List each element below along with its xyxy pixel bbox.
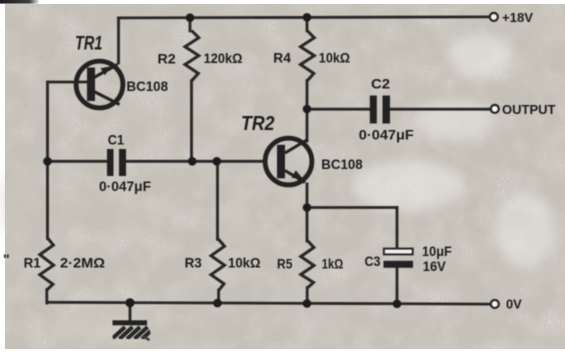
wire: left column below R1	[45, 290, 48, 304]
ground symbol	[129, 303, 132, 321]
svg-text:1kΩ: 1kΩ	[322, 256, 343, 272]
wire: R2 column	[189, 18, 192, 31]
wire: top +18V rail	[119, 17, 490, 18]
junction R2 top on +18V rail	[186, 13, 195, 22]
svg-text:C3: C3	[365, 253, 381, 269]
capacitor C2	[370, 96, 390, 124]
wire: C2 right to output	[391, 108, 491, 111]
wire: bottom 0V rail	[48, 302, 491, 304]
svg-text:R2: R2	[158, 51, 176, 67]
junction TR1 base / C1 / R1	[43, 157, 52, 166]
wire: R4/TR2 collector column	[306, 17, 309, 31]
svg-text:BC108: BC108	[127, 78, 169, 94]
wire: R5 bottom lead	[306, 288, 309, 304]
terminal OUTPUT	[491, 105, 499, 113]
wire: R3 column top	[216, 161, 219, 239]
svg-text:R1: R1	[24, 255, 41, 271]
wire: mid base line right of C1 to TR2 base	[127, 160, 267, 163]
resistor R5	[301, 241, 314, 289]
junction C3 bottom on 0V rail	[393, 300, 402, 309]
resistor R1	[40, 238, 54, 290]
wire: TR2 emitter column	[306, 184, 309, 241]
svg-text:0·047μF: 0·047μF	[359, 127, 414, 143]
transistor TR2	[265, 138, 312, 185]
node TR2 collector / C2	[303, 105, 312, 114]
svg-text:10μF: 10μF	[422, 243, 452, 259]
svg-text:10kΩ: 10kΩ	[319, 50, 350, 66]
svg-text:120kΩ: 120kΩ	[204, 50, 243, 66]
wire: C3 bottom lead	[396, 268, 399, 305]
wire: C3 top lead	[396, 208, 399, 249]
junction R2 bottom on base wire	[188, 157, 197, 166]
svg-text:2·2MΩ: 2·2MΩ	[60, 255, 105, 271]
svg-text:": "	[3, 251, 10, 267]
svg-text:C1: C1	[108, 132, 124, 148]
svg-text:TR2: TR2	[241, 113, 275, 135]
wire: R3 bottom lead	[217, 290, 220, 303]
svg-text:16V: 16V	[423, 258, 447, 274]
resistor R3	[211, 239, 225, 291]
resistor R4	[301, 31, 315, 82]
wire: left column (TR1 base down to bottom rail)	[46, 82, 49, 239]
terminal 0V	[491, 300, 499, 308]
junction ground on 0V rail	[125, 298, 134, 307]
wire: C2 left	[307, 108, 370, 111]
junction R4 top on +18V rail	[303, 13, 312, 22]
svg-text:0·047μF: 0·047μF	[99, 178, 151, 194]
wire: TR1 emitter to rail	[117, 18, 120, 63]
capacitor C1	[107, 149, 126, 176]
svg-text:C2: C2	[371, 76, 390, 92]
transistor TR1	[48, 61, 123, 108]
terminal +18V	[490, 13, 498, 21]
svg-text:OUTPUT: OUTPUT	[502, 102, 556, 117]
node TR2 emitter / R5 / C3	[303, 203, 312, 212]
junction R5 bottom on 0V rail	[303, 299, 312, 308]
svg-text:R4: R4	[273, 50, 291, 66]
junction R3 top on base wire	[213, 157, 222, 166]
svg-text:BC108: BC108	[321, 156, 363, 172]
svg-text:+18V: +18V	[502, 10, 533, 25]
svg-text:R3: R3	[185, 255, 202, 271]
resistor R2	[185, 31, 199, 82]
wire: mid base line left of C1	[48, 160, 108, 163]
svg-text:TR1: TR1	[75, 33, 103, 54]
svg-text:10kΩ: 10kΩ	[228, 255, 261, 271]
wire: emitter node to C3	[307, 206, 397, 209]
capacitor C3 (electrolytic)	[384, 249, 414, 268]
svg-text:0V: 0V	[506, 297, 522, 312]
svg-text:R5: R5	[277, 256, 293, 272]
junction R3 bottom on 0V rail	[213, 299, 222, 308]
